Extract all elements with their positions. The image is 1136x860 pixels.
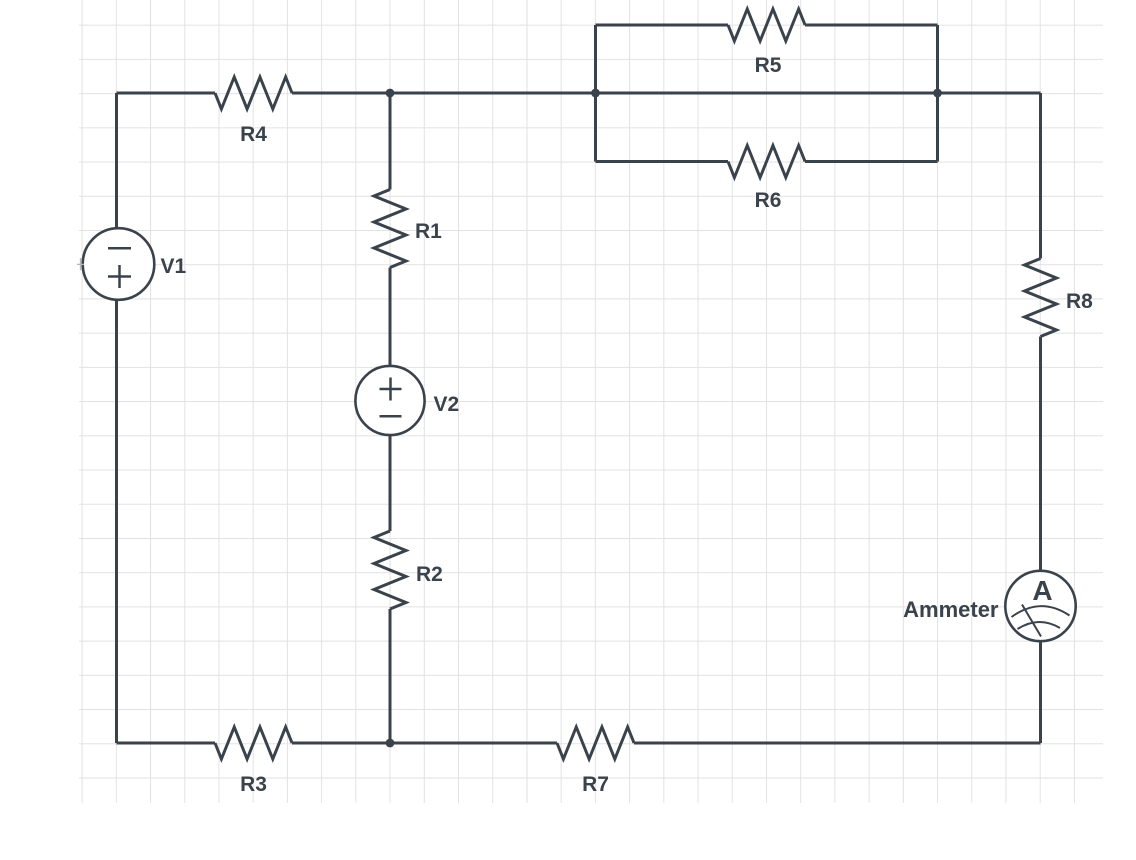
resistor R6	[728, 146, 805, 178]
wire: bottom rail middle segment	[292, 742, 557, 745]
svg-text:R5: R5	[755, 54, 782, 77]
svg-text:A: A	[1032, 575, 1052, 606]
svg-text:R1: R1	[415, 220, 442, 243]
voltage source V2	[355, 366, 424, 435]
wire: top rail left segment	[117, 92, 216, 95]
voltage source V1	[83, 228, 155, 300]
wire: right branch lower	[1039, 642, 1042, 744]
svg-text:R6: R6	[755, 189, 782, 212]
wire: right branch upper	[1039, 93, 1042, 259]
wire: parallel block left vertical	[594, 25, 597, 162]
resistor R8	[1025, 259, 1057, 337]
ammeter	[1005, 571, 1075, 641]
wire: middle branch between V2 and R2	[389, 435, 392, 531]
wire: right branch between R8 and ammeter	[1039, 337, 1042, 571]
wire: parallel block right vertical	[936, 25, 939, 162]
wire: middle branch upper	[389, 93, 392, 190]
resistor R3	[215, 727, 292, 759]
svg-text:R7: R7	[582, 773, 609, 796]
resistor R4	[215, 77, 292, 109]
svg-text:R2: R2	[416, 563, 443, 586]
wire: parallel bottom rail left	[596, 160, 729, 163]
resistor R1	[374, 190, 406, 268]
wire: parallel top rail left	[596, 24, 729, 27]
junction node bottom-middle	[386, 739, 395, 748]
stray terminal cross artifact left of V1	[77, 258, 84, 270]
wire: middle branch lower	[389, 609, 392, 743]
junction node parallel left	[591, 89, 600, 98]
svg-text:R3: R3	[240, 773, 267, 796]
wire: top rail right of R4 to right corner	[292, 92, 1041, 95]
svg-text:R8: R8	[1066, 290, 1093, 313]
resistor R7	[557, 727, 634, 759]
svg-text:V2: V2	[434, 393, 460, 416]
wire: parallel top rail right	[805, 24, 938, 27]
svg-text:R4: R4	[240, 123, 267, 146]
wire: left branch vertical (V1 branch)	[115, 93, 118, 743]
junction node parallel right	[933, 89, 942, 98]
wire: bottom rail right segment	[634, 742, 1041, 745]
wire: bottom rail left segment	[117, 742, 216, 745]
svg-text:V1: V1	[161, 255, 187, 278]
wire: parallel bottom rail right	[805, 160, 938, 163]
resistor R2	[374, 531, 406, 609]
svg-text:Ammeter: Ammeter	[903, 597, 999, 622]
junction node top-middle	[386, 89, 395, 98]
wire: middle branch between R1 and V2	[389, 268, 392, 367]
resistor R5	[728, 9, 805, 41]
